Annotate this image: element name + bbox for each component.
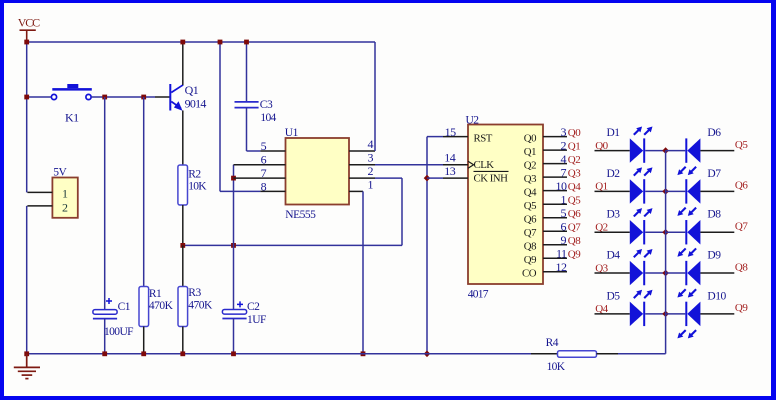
svg-text:RST: RST xyxy=(474,132,493,144)
junction LED bus row 1 xyxy=(662,147,669,154)
U1 pin 4 stub xyxy=(349,137,375,151)
wire R2 to mid bus xyxy=(182,205,184,245)
U1 pin 2 stub xyxy=(349,164,402,178)
svg-text:Q8: Q8 xyxy=(735,261,748,273)
U2 pin 14 CLK stub xyxy=(443,151,468,165)
svg-text:Q6: Q6 xyxy=(735,180,748,192)
svg-text:Q9: Q9 xyxy=(568,248,581,260)
power symbol VCC xyxy=(18,16,40,43)
junction LED bus row 5 xyxy=(662,311,669,318)
svg-text:C3: C3 xyxy=(260,99,273,111)
junction ground bus / C1 xyxy=(102,351,107,356)
U1 pin 7 stub xyxy=(234,166,286,180)
junction top bus / C3 xyxy=(244,40,249,45)
wire Q9 stub xyxy=(700,313,734,315)
svg-text:10: 10 xyxy=(556,179,568,193)
wire R3 top lead xyxy=(182,245,184,286)
wire top bus to U1 pin 8 xyxy=(220,42,260,191)
counter U2 4017 body xyxy=(468,125,543,285)
svg-text:Q1: Q1 xyxy=(524,146,536,158)
capacitor C2 xyxy=(222,301,246,318)
svg-text:1UF: 1UF xyxy=(247,314,266,326)
wire bus to D7 cathode xyxy=(666,190,686,192)
LED D4 xyxy=(630,249,653,285)
LED D7 xyxy=(677,179,700,216)
5V pin 1 xyxy=(27,186,68,200)
U2 pin 13 CK INH stub xyxy=(427,164,468,178)
wire R1 column upper xyxy=(143,97,145,287)
svg-text:Q0: Q0 xyxy=(568,127,581,139)
svg-text:U2: U2 xyxy=(466,115,480,127)
wire pins 6-7 / C2 column xyxy=(233,165,235,310)
svg-text:K1: K1 xyxy=(65,111,79,125)
wire mid bus up to U1 pin 2 xyxy=(401,178,403,245)
resistor R1 xyxy=(139,287,149,327)
wire C1 column upper xyxy=(104,97,106,310)
junction K1 row / C1 column xyxy=(102,95,107,100)
junction ground bus / ground xyxy=(24,351,29,356)
svg-text:Q8: Q8 xyxy=(524,240,536,252)
wire mid bus xyxy=(183,244,402,246)
wire Q6 stub xyxy=(700,190,734,192)
wire left rail upper xyxy=(26,42,28,192)
junction LED bus row 2 xyxy=(662,188,669,195)
U2 pin 2 Q1 (stub, number, name) xyxy=(524,138,580,158)
svg-text:470K: 470K xyxy=(149,300,174,312)
LED D3 xyxy=(630,208,653,244)
svg-text:Q7: Q7 xyxy=(568,221,581,233)
wire bus to D8 cathode xyxy=(666,231,686,233)
svg-text:13: 13 xyxy=(444,164,456,178)
svg-text:NE555: NE555 xyxy=(285,209,316,221)
op-amp U1 NE555 body xyxy=(286,138,350,205)
svg-text:R3: R3 xyxy=(188,287,201,299)
svg-text:D4: D4 xyxy=(607,249,621,261)
svg-text:3: 3 xyxy=(368,151,374,165)
svg-text:Q3: Q3 xyxy=(568,167,581,179)
svg-text:10K: 10K xyxy=(547,361,566,373)
svg-text:Q6: Q6 xyxy=(524,213,537,225)
svg-text:Q4: Q4 xyxy=(568,181,581,193)
svg-text:6: 6 xyxy=(261,152,267,166)
svg-text:Q9: Q9 xyxy=(524,254,536,266)
U2 pin 3 Q0 (stub, number, name) xyxy=(524,125,581,145)
wire Q5 stub xyxy=(700,150,734,152)
svg-text:1: 1 xyxy=(62,186,68,200)
junction ground bus / C2 xyxy=(231,351,236,356)
wire Q7 stub xyxy=(700,231,734,233)
junction mid bus / R2-R3 xyxy=(180,243,185,248)
LED D6 xyxy=(677,138,700,175)
wire ground bus to R4 xyxy=(427,353,531,355)
svg-text:D10: D10 xyxy=(707,290,726,302)
U1 pin 1 stub xyxy=(349,178,374,192)
wire U1 pin 3 to U2 CLK xyxy=(375,164,443,166)
U2 pin 15 RST stub xyxy=(427,125,468,139)
wire left rail to K1 xyxy=(27,96,52,98)
junction LED bus row 3 xyxy=(662,229,669,236)
5V pin 2 xyxy=(27,201,68,215)
wire bus to D10 cathode xyxy=(666,313,686,315)
ground xyxy=(14,354,40,379)
svg-text:1: 1 xyxy=(561,192,567,206)
junction top bus / left rail xyxy=(24,40,29,45)
junction LED bus row 4 xyxy=(662,270,669,277)
svg-text:5: 5 xyxy=(261,139,267,153)
wire Q1 stub xyxy=(595,190,630,192)
capacitor C1 xyxy=(93,298,117,319)
svg-text:15: 15 xyxy=(445,125,457,139)
svg-text:D6: D6 xyxy=(707,127,721,139)
svg-text:2: 2 xyxy=(561,138,567,152)
U1 pin 3 stub xyxy=(349,151,375,165)
wire D1 cathode to bus xyxy=(645,150,665,152)
wire bus to D6 cathode xyxy=(666,150,686,152)
svg-text:D3: D3 xyxy=(607,209,621,221)
wire R3 to ground bus xyxy=(182,327,184,354)
svg-text:9: 9 xyxy=(561,233,567,247)
svg-text:2: 2 xyxy=(368,164,374,178)
junction K1 row / R1 column xyxy=(141,95,146,100)
wire left rail lower xyxy=(26,206,28,354)
svg-text:Q2: Q2 xyxy=(524,159,536,171)
svg-text:9014: 9014 xyxy=(185,96,207,110)
wire U1 pin 1 to ground bus xyxy=(362,191,364,353)
wire top VCC bus xyxy=(27,41,375,43)
svg-text:10K: 10K xyxy=(188,181,207,193)
svg-text:470K: 470K xyxy=(188,299,213,311)
transistor Q1 xyxy=(169,84,183,111)
svg-text:4: 4 xyxy=(561,152,567,166)
wire top bus to C3 xyxy=(246,42,248,102)
svg-text:4: 4 xyxy=(368,137,374,151)
svg-text:Q9: Q9 xyxy=(735,302,748,314)
svg-text:CK INH: CK INH xyxy=(474,172,509,184)
resistor R2 xyxy=(178,165,188,205)
svg-text:4017: 4017 xyxy=(468,288,489,300)
wire Q3 stub xyxy=(595,272,630,274)
LED D2 xyxy=(630,167,653,203)
junction ground bus / R3 xyxy=(180,351,185,356)
U2 pin 5 Q6 (stub, number, name) xyxy=(524,206,581,226)
svg-text:6: 6 xyxy=(561,219,567,233)
svg-text:C1: C1 xyxy=(118,301,131,313)
LED D8 xyxy=(677,220,700,257)
svg-text:R2: R2 xyxy=(188,168,201,180)
svg-text:D8: D8 xyxy=(707,209,721,221)
U1 pin 8 stub xyxy=(260,180,285,194)
svg-text:104: 104 xyxy=(260,112,276,124)
svg-text:D9: D9 xyxy=(707,250,721,262)
svg-text:Q0: Q0 xyxy=(524,132,536,144)
svg-text:R1: R1 xyxy=(149,288,162,300)
svg-text:CO: CO xyxy=(522,268,537,280)
svg-text:1: 1 xyxy=(368,178,374,192)
svg-text:7: 7 xyxy=(261,166,267,180)
U1 pin 6 stub xyxy=(234,152,286,166)
svg-text:U1: U1 xyxy=(285,127,299,139)
U2 pin 12 CO (stub, number, name) xyxy=(522,260,567,280)
wire Q4 stub xyxy=(595,313,630,315)
resistor R3 xyxy=(178,287,188,327)
LED D9 xyxy=(677,261,700,298)
wire Q1 collector to top bus xyxy=(182,42,184,85)
svg-text:D5: D5 xyxy=(607,290,621,302)
junction mid bus / C2 column xyxy=(231,243,236,248)
junction ground bus / R1 xyxy=(141,351,146,356)
svg-text:Q1: Q1 xyxy=(185,83,199,97)
svg-text:5: 5 xyxy=(561,206,567,220)
svg-text:Q4: Q4 xyxy=(524,186,537,198)
wire C2 to ground bus xyxy=(233,319,235,354)
wire Q0 stub xyxy=(595,150,630,152)
svg-text:5V: 5V xyxy=(53,166,67,178)
svg-text:Q3: Q3 xyxy=(524,173,536,185)
wire D3 cathode to bus xyxy=(645,231,665,233)
svg-text:D2: D2 xyxy=(607,168,621,180)
junction ground bus / pin1 wire xyxy=(361,351,366,356)
U2 pin 9 Q8 (stub, number, name) xyxy=(524,233,581,253)
capacitor C3 xyxy=(235,102,259,108)
wire Q2 stub xyxy=(595,231,630,233)
U2 CLK pin name and clock wedge xyxy=(468,159,494,171)
LED D10 xyxy=(677,302,700,339)
wire C3 to U1 pin 5 xyxy=(247,108,261,151)
wire C1 to ground bus xyxy=(104,319,106,354)
wire RST-CKINH column xyxy=(426,137,428,354)
wire K1 to Q1 base xyxy=(91,96,155,98)
junction top bus / Q1 collector xyxy=(180,40,185,45)
wire D4 cathode to bus xyxy=(645,272,665,274)
svg-text:C2: C2 xyxy=(247,301,260,313)
svg-text:Q2: Q2 xyxy=(568,154,580,166)
U2 pin 10 Q4 (stub, number, name) xyxy=(524,179,581,199)
svg-text:Q1: Q1 xyxy=(568,140,580,152)
svg-text:D7: D7 xyxy=(707,168,721,180)
svg-text:CLK: CLK xyxy=(474,159,495,171)
svg-text:VCC: VCC xyxy=(18,16,40,30)
junction left rail / K1 row xyxy=(24,95,29,100)
svg-text:100UF: 100UF xyxy=(104,326,133,338)
LED D5 xyxy=(630,290,653,326)
pushbutton K1 xyxy=(51,84,91,100)
wire U1 pin 4 to top bus xyxy=(374,42,376,151)
svg-text:Q7: Q7 xyxy=(524,227,537,239)
svg-text:2: 2 xyxy=(62,201,68,215)
wire D2 cathode to bus xyxy=(645,190,665,192)
svg-text:12: 12 xyxy=(556,260,568,274)
U2 pin 11 Q9 (stub, number, name) xyxy=(524,246,581,266)
wire ground bus xyxy=(27,353,427,355)
wire R4 to LED bus xyxy=(597,353,666,355)
svg-text:Q7: Q7 xyxy=(735,220,748,232)
svg-text:8: 8 xyxy=(261,180,267,194)
wire LED cathode bus xyxy=(665,151,667,354)
U2 pin 7 Q3 (stub, number, name) xyxy=(524,165,581,185)
wire D5 cathode to bus xyxy=(645,313,665,315)
connector 5V body xyxy=(52,178,77,218)
wire Q8 stub xyxy=(700,272,734,274)
junction ground bus / RST column xyxy=(424,351,431,358)
svg-text:R4: R4 xyxy=(546,337,559,349)
svg-text:3: 3 xyxy=(561,125,567,139)
LED D1 xyxy=(630,127,653,163)
svg-text:11: 11 xyxy=(556,246,567,260)
U2 CK INH pin name with overline xyxy=(474,171,509,184)
U1 pin 5 stub xyxy=(260,139,285,153)
svg-text:Q6: Q6 xyxy=(568,208,581,220)
U2 pin 1 Q5 (stub, number, name) xyxy=(524,192,581,212)
U2 pin 6 Q7 (stub, number, name) xyxy=(524,219,581,239)
svg-text:D1: D1 xyxy=(607,127,621,139)
resistor R4 xyxy=(558,351,597,358)
svg-text:Q5: Q5 xyxy=(524,200,536,212)
wire R1 to ground bus xyxy=(143,327,145,354)
svg-text:Q5: Q5 xyxy=(568,194,581,206)
junction CK INH tee xyxy=(424,175,431,182)
svg-text:Q8: Q8 xyxy=(568,235,581,247)
junction top bus / pin8 column xyxy=(218,40,223,45)
wire Q1 emitter to R2 xyxy=(182,111,184,166)
wire bus to D9 cathode xyxy=(666,272,686,274)
junction C2 column / U1 pin 7 xyxy=(231,176,236,181)
svg-text:7: 7 xyxy=(561,165,567,179)
svg-text:Q5: Q5 xyxy=(735,139,748,151)
U2 pin 4 Q2 (stub, number, name) xyxy=(524,152,580,172)
svg-text:14: 14 xyxy=(444,151,456,165)
